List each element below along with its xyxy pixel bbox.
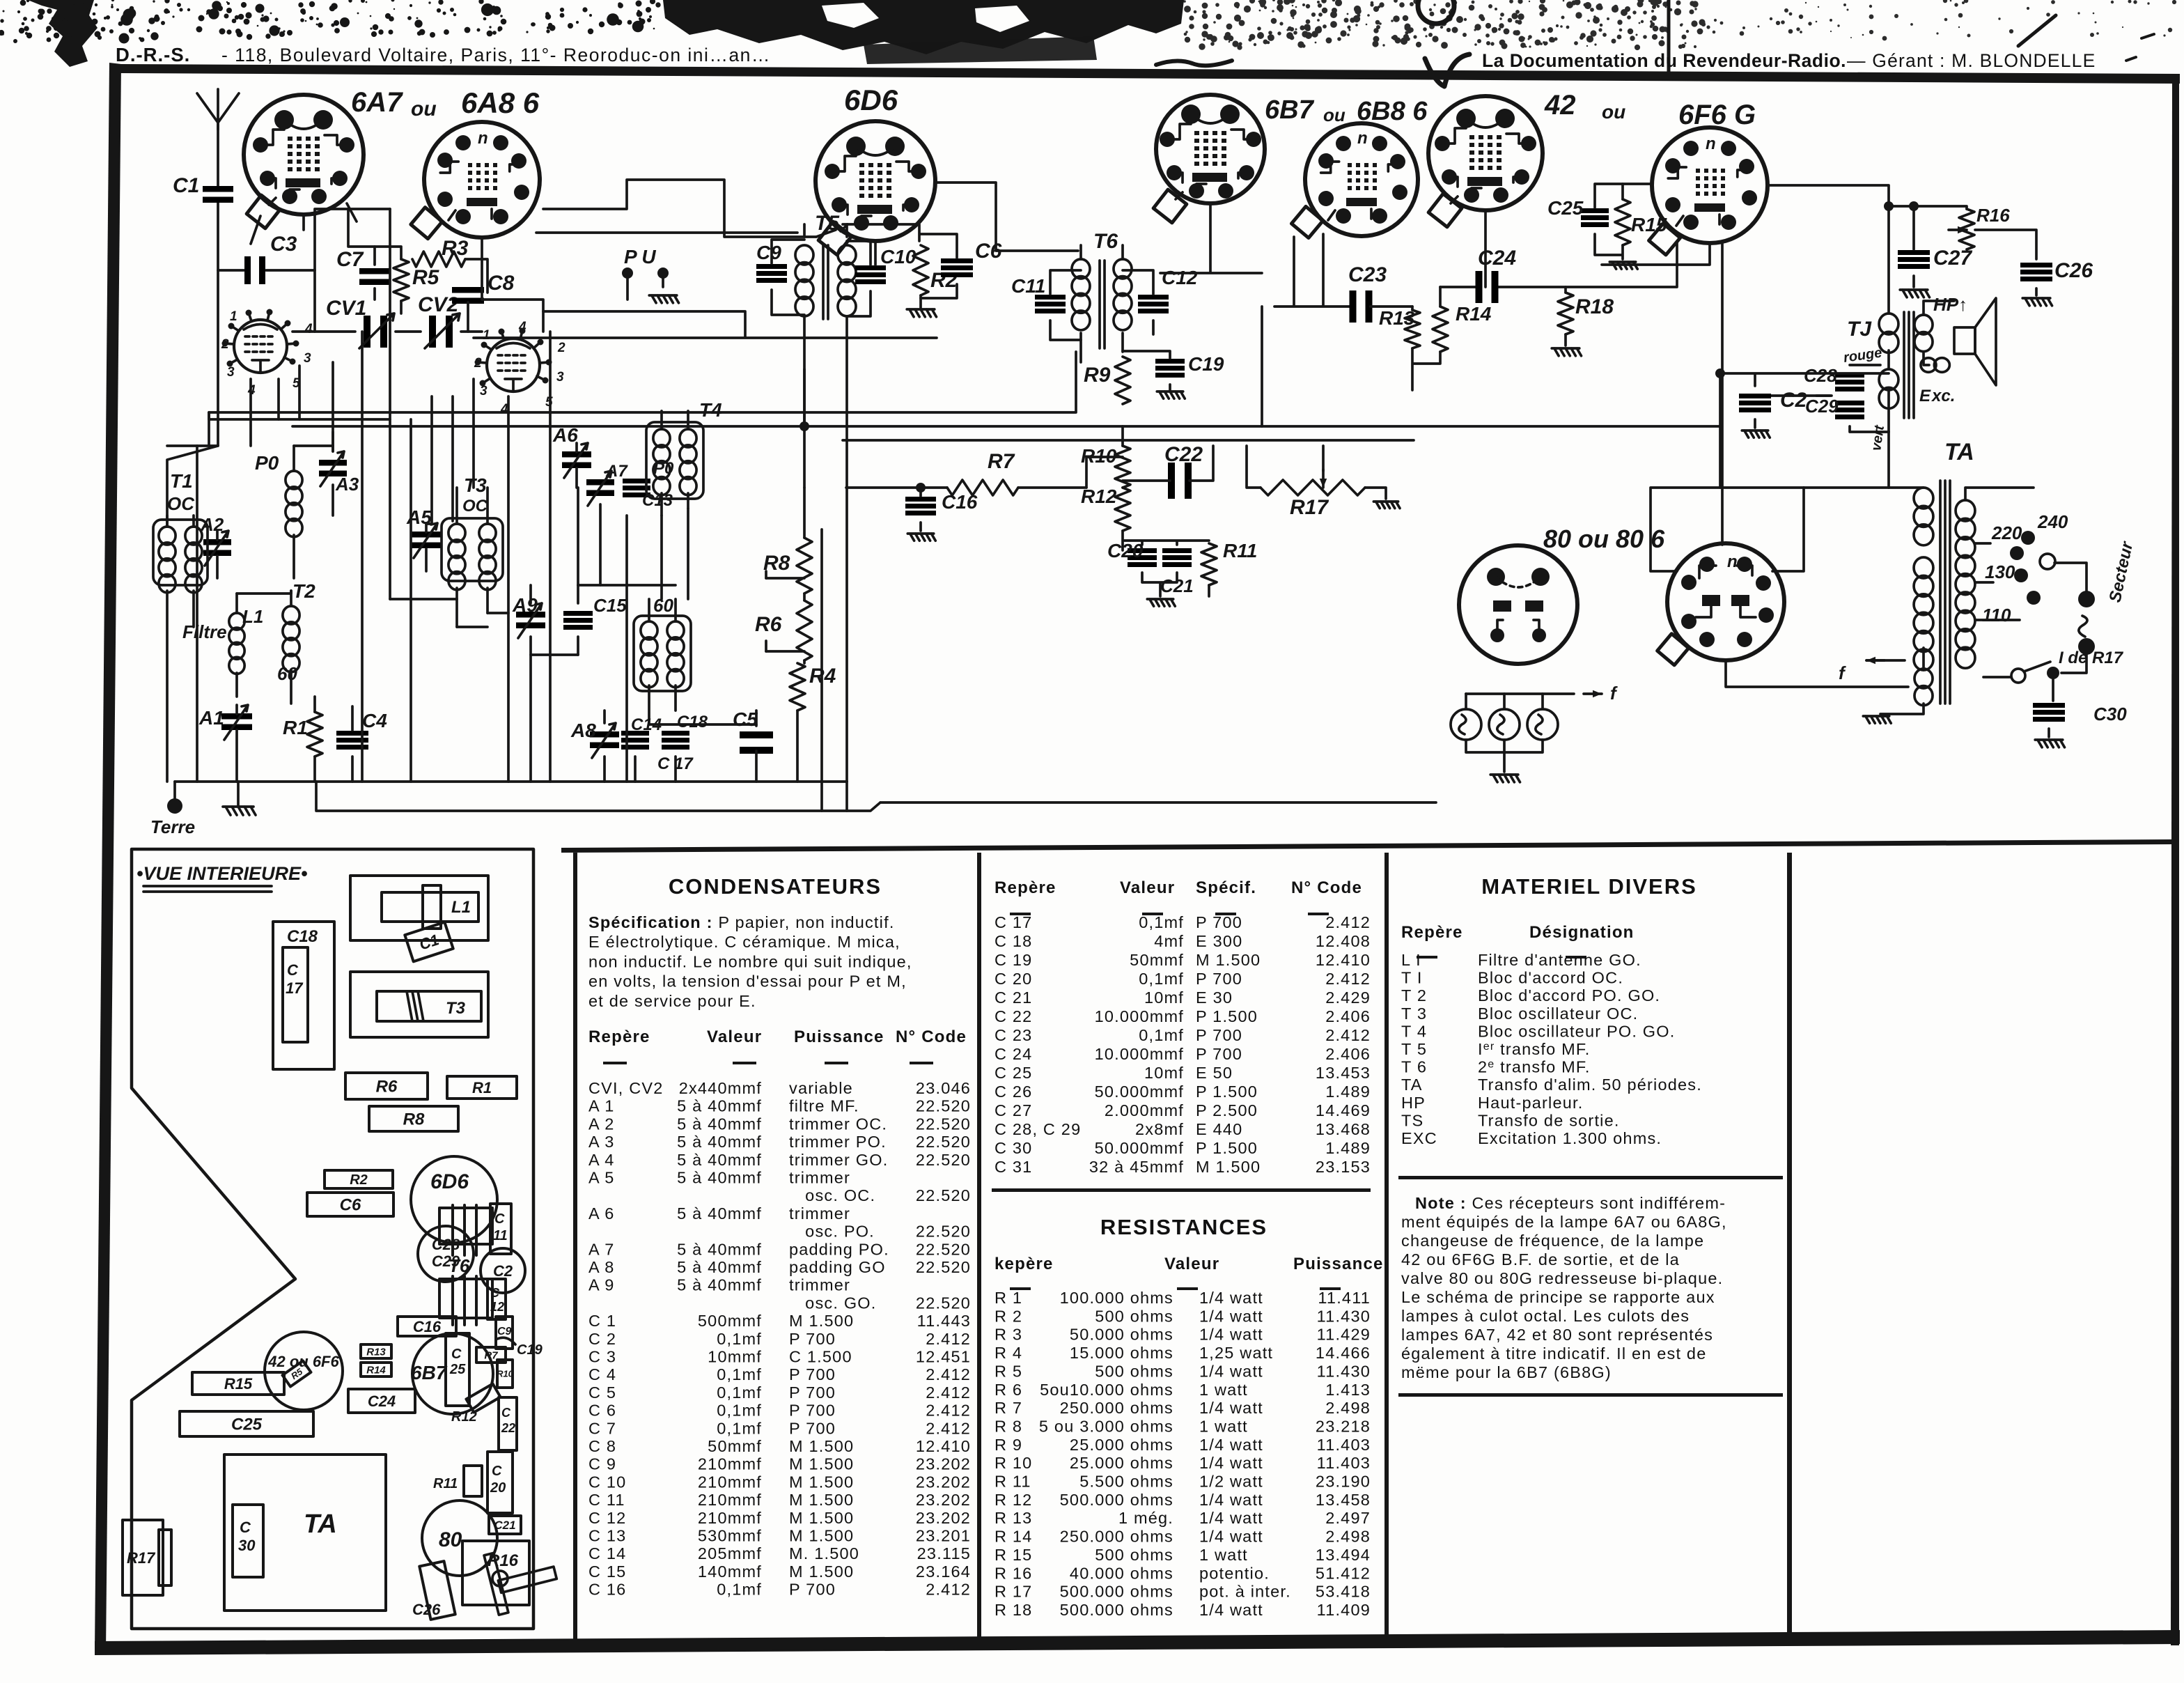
svg-text:R 12: R 12 [994, 1491, 1032, 1509]
svg-text:R 7: R 7 [994, 1399, 1022, 1417]
svg-text:2.497: 2.497 [1325, 1509, 1371, 1527]
svg-text:également à titre indicatif. I: également à titre indicatif. Il en est d… [1401, 1344, 1706, 1363]
scan noise: big central blob [663, 0, 1184, 54]
scan noise: vertical stray line [1667, 0, 1671, 77]
svg-text:C 17: C 17 [994, 913, 1032, 931]
svg-text:R 17: R 17 [994, 1583, 1032, 1601]
svg-text:C5: C5 [733, 708, 758, 730]
svg-text:32 à 45mmf: 32 à 45mmf [1089, 1158, 1184, 1176]
svg-text:padding GO: padding GO [789, 1258, 886, 1276]
svg-text:11.429: 11.429 [1317, 1326, 1371, 1344]
svg-text:C8: C8 [487, 272, 515, 295]
capacitor C11 [1035, 295, 1066, 300]
svg-text:2.412: 2.412 [1325, 970, 1371, 988]
svg-text:M 1.500: M 1.500 [789, 1527, 854, 1545]
svg-text:RESISTANCES: RESISTANCES [1100, 1215, 1267, 1239]
svg-text:15.000 ohms: 15.000 ohms [1070, 1344, 1173, 1362]
wire: long B+ bus [292, 369, 1720, 426]
svg-text:1/4 watt: 1/4 watt [1199, 1289, 1263, 1307]
svg-text:C18: C18 [677, 713, 708, 731]
capacitor C18 schematic [662, 731, 689, 736]
svg-text:T4: T4 [699, 399, 722, 421]
svg-text:23.202: 23.202 [916, 1509, 971, 1527]
svg-text:L1: L1 [451, 898, 471, 917]
svg-text:R 13: R 13 [994, 1509, 1032, 1527]
svg-text:11.443: 11.443 [917, 1312, 971, 1330]
chassis part C2 circle [481, 1248, 525, 1293]
chassis part R9 [496, 1317, 513, 1349]
svg-text:23.218: 23.218 [1316, 1417, 1371, 1435]
rule under C31 [992, 1188, 1371, 1192]
svg-text:R 11: R 11 [994, 1473, 1031, 1491]
table divider right of materiel divers [1787, 853, 1792, 1638]
svg-text:D.-R.-S.: D.-R.-S. [116, 44, 190, 65]
capacitor C30 [2033, 703, 2065, 708]
wire: 42/6F6G output stage link [1602, 243, 1722, 545]
wire: 80G connections [1651, 488, 1908, 687]
svg-text:P 700: P 700 [789, 1330, 836, 1348]
svg-text:80: 80 [439, 1528, 462, 1551]
svg-text:5ou10.000 ohms: 5ou10.000 ohms [1040, 1381, 1173, 1399]
svg-text:6D6: 6D6 [844, 84, 898, 116]
capacitor C5 [740, 731, 773, 738]
ground R17 [1373, 502, 1400, 509]
svg-text:A 4: A 4 [588, 1151, 615, 1169]
capacitor C27 [1898, 250, 1930, 255]
svg-text:13.453: 13.453 [1316, 1064, 1371, 1082]
speaker coil [1921, 358, 1936, 372]
svg-text:T5: T5 [815, 212, 840, 235]
resistor R12 [1115, 488, 1130, 531]
svg-text:R 4: R 4 [994, 1344, 1022, 1362]
ground for PU [649, 295, 678, 303]
wire: left section vertical mesh [197, 362, 333, 782]
transfo T6 core marks [1100, 261, 1105, 348]
wire: T6 to 6B7 link [1160, 203, 1262, 273]
tube symbol U2 heptode oscillator section [487, 339, 540, 391]
svg-text:T6: T6 [448, 1255, 470, 1276]
svg-text:potentio.: potentio. [1199, 1564, 1270, 1582]
svg-text:R10: R10 [497, 1369, 514, 1379]
svg-text:C12: C12 [1162, 267, 1198, 288]
trimmer A3 [319, 460, 347, 466]
svg-text:2: 2 [474, 356, 482, 371]
transfo TA primary top winding [1914, 488, 1933, 509]
wire: C3 junction risers [315, 209, 390, 332]
svg-text:42 ou 6F6G B.F. de sortie, et: 42 ou 6F6G B.F. de sortie, et de la [1401, 1250, 1680, 1269]
svg-text:M 1.500: M 1.500 [1196, 1158, 1261, 1176]
transfo TA core [1940, 481, 1950, 704]
svg-text:1.489: 1.489 [1325, 1083, 1371, 1101]
svg-text:C 19: C 19 [994, 951, 1032, 969]
svg-text:ou: ou [411, 98, 437, 121]
svg-text:TA: TA [1401, 1076, 1423, 1094]
wire: B+ into TS centre [1755, 390, 1889, 432]
scan noise: diagonal pen stroke right [2018, 15, 2056, 46]
wire: 6A7 culot stubs [251, 203, 357, 244]
wire: padder bottoms junction [845, 782, 848, 811]
svg-text:HP: HP [1401, 1094, 1426, 1112]
svg-text:C 3: C 3 [588, 1348, 616, 1366]
svg-text:ment équipés de la lampe 6A7 o: ment équipés de la lampe 6A7 ou 6A8G, [1401, 1213, 1727, 1231]
svg-text:Bloc d'accord PO. GO.: Bloc d'accord PO. GO. [1478, 986, 1660, 1005]
svg-text:23.202: 23.202 [916, 1455, 971, 1473]
svg-text:1: 1 [230, 309, 237, 324]
resistor R2 [913, 245, 928, 295]
svg-text:n: n [1706, 134, 1716, 153]
svg-text:lampes à culot octal. Les culo: lampes à culot octal. Les culots des [1401, 1307, 1690, 1325]
svg-text:T 4: T 4 [1401, 1022, 1427, 1040]
resistor R7 [947, 480, 1018, 495]
svg-text:P 1.500: P 1.500 [1196, 1139, 1258, 1157]
svg-text:1 még.: 1 még. [1118, 1509, 1173, 1527]
svg-text:C2: C2 [1780, 389, 1807, 412]
svg-text:M 1.500: M 1.500 [789, 1455, 854, 1473]
svg-text:TA: TA [304, 1510, 337, 1539]
svg-text:R 5: R 5 [994, 1362, 1022, 1380]
svg-text:12.408: 12.408 [1316, 932, 1371, 950]
svg-text:C26: C26 [2054, 259, 2093, 282]
chassis part T6 IF can [439, 1208, 492, 1244]
svg-text:A 9: A 9 [588, 1276, 615, 1294]
capacitor C3 [244, 256, 251, 284]
svg-text:M 1.500: M 1.500 [789, 1491, 854, 1509]
svg-text:4mf: 4mf [1154, 932, 1184, 950]
svg-text:padding PO.: padding PO. [789, 1240, 889, 1258]
svg-text:R7: R7 [988, 450, 1015, 473]
svg-text:A 3: A 3 [588, 1133, 615, 1151]
svg-text:T I: T I [1401, 969, 1423, 987]
speaker HP [1954, 327, 1975, 354]
trimmer A2 [203, 539, 231, 545]
svg-text:R14: R14 [1456, 303, 1492, 325]
svg-text:C19: C19 [1188, 353, 1224, 375]
svg-text:2.412: 2.412 [926, 1330, 971, 1348]
svg-text:C15: C15 [593, 595, 627, 616]
svg-text:Excitation 1.300 ohms.: Excitation 1.300 ohms. [1478, 1129, 1662, 1147]
svg-text:C 25: C 25 [994, 1064, 1032, 1082]
svg-text:5 à 40mmf: 5 à 40mmf [677, 1258, 762, 1276]
svg-text:22.520: 22.520 [916, 1151, 971, 1169]
trimmer A9 [516, 612, 545, 618]
svg-text:12: 12 [490, 1300, 504, 1314]
svg-text:22.520: 22.520 [916, 1258, 971, 1276]
capacitor C16 [905, 497, 936, 502]
svg-text:6F6 G: 6F6 G [1678, 100, 1756, 130]
variable capacitor CV1 [364, 316, 370, 348]
svg-text:R2: R2 [930, 269, 958, 292]
svg-text:R8: R8 [403, 1110, 425, 1129]
svg-text:C: C [490, 1286, 500, 1300]
svg-text:trimmer PO.: trimmer PO. [789, 1133, 887, 1151]
capacitor C15 [563, 611, 593, 616]
svg-text:22.520: 22.520 [916, 1240, 971, 1258]
svg-text:10mf: 10mf [1144, 1064, 1184, 1082]
svg-text:R14: R14 [366, 1364, 386, 1376]
svg-text:C1: C1 [173, 174, 199, 197]
svg-text:6D6: 6D6 [430, 1170, 469, 1193]
chassis part TA box [224, 1455, 386, 1611]
scan noise: ring mark [1418, 0, 1454, 24]
svg-text:•VUE INTERIEURE•: •VUE INTERIEURE• [136, 863, 307, 884]
svg-text:500 ohms: 500 ohms [1095, 1546, 1173, 1564]
capacitor C9 [756, 264, 787, 269]
svg-text:MATERIEL DIVERS: MATERIEL DIVERS [1481, 874, 1697, 899]
svg-text:C28: C28 [1804, 365, 1837, 386]
svg-text:P 700: P 700 [1196, 1045, 1242, 1063]
transfo T5 secondary coil [838, 245, 856, 265]
svg-text:23.046: 23.046 [916, 1079, 971, 1097]
svg-text:210mmf: 210mmf [698, 1491, 762, 1509]
svg-text:12.410: 12.410 [916, 1437, 971, 1455]
svg-text:60: 60 [277, 663, 297, 684]
svg-text:2.498: 2.498 [1325, 1399, 1371, 1417]
ground C27 [1900, 290, 1929, 297]
svg-text:OC: OC [462, 497, 488, 515]
svg-text:trimmer OC.: trimmer OC. [789, 1115, 887, 1133]
svg-text:6A8 6: 6A8 6 [461, 86, 540, 119]
svg-text:P U: P U [624, 246, 656, 267]
svg-text:2: 2 [557, 341, 565, 355]
svg-text:2e transfo MF.: 2e transfo MF. [1478, 1058, 1591, 1076]
svg-text:2.412: 2.412 [926, 1581, 971, 1599]
svg-text:C 13: C 13 [588, 1527, 626, 1545]
table divider between condensateurs and middle column [977, 853, 981, 1643]
chassis part R2 [325, 1170, 393, 1188]
svg-text:Bloc oscillateur OC.: Bloc oscillateur OC. [1478, 1005, 1638, 1023]
chassis part R17 left [123, 1520, 163, 1595]
chassis part R16 with shaft [462, 1541, 529, 1605]
wire: plate node to R16 [1889, 206, 1967, 209]
wire: T5 to 6D6 grid [843, 224, 919, 241]
svg-text:0,1mf: 0,1mf [717, 1365, 762, 1383]
svg-text:5 à 40mmf: 5 à 40mmf [677, 1097, 762, 1115]
svg-text:C 27: C 27 [994, 1101, 1032, 1119]
svg-text:1/4 watt: 1/4 watt [1199, 1509, 1263, 1527]
chassis part 6D6 tube circle [411, 1156, 497, 1243]
svg-text:A3: A3 [335, 474, 359, 495]
table divider left edge [573, 853, 577, 1643]
wire: output plate to TS [1768, 185, 1889, 206]
resistor R3 [412, 251, 465, 267]
svg-text:500mmf: 500mmf [698, 1312, 762, 1330]
svg-text:R 8: R 8 [994, 1417, 1022, 1435]
svg-text:22.520: 22.520 [916, 1097, 971, 1115]
svg-text:C 22: C 22 [994, 1007, 1032, 1025]
svg-text:1/4 watt: 1/4 watt [1199, 1491, 1263, 1509]
frame: left border bar [95, 63, 121, 1652]
chassis part C26 tilted [419, 1561, 455, 1620]
resistor R17 potentiometer [1261, 480, 1365, 495]
tube 6A7 culot [244, 95, 364, 215]
terre terminal [167, 798, 182, 814]
svg-text:1/4 watt: 1/4 watt [1199, 1326, 1263, 1344]
ground C26 [2022, 298, 2052, 306]
svg-text:R3: R3 [442, 237, 469, 260]
tube symbol U1 heptode 6A7/6A8 stage 1 [234, 320, 287, 373]
svg-text:C 11: C 11 [588, 1491, 625, 1509]
svg-text:R 1: R 1 [994, 1289, 1022, 1307]
svg-text:et de service pour E.: et de service pour E. [588, 992, 756, 1010]
capacitor C23 [1350, 290, 1357, 323]
svg-text:C 21: C 21 [994, 988, 1032, 1007]
wire: coupling to C24 [1440, 243, 1677, 287]
svg-text:220: 220 [1991, 522, 2022, 543]
chassis part C18 with C17 [273, 922, 334, 1069]
svg-text:filtre MF.: filtre MF. [789, 1097, 859, 1115]
svg-text:1/4 watt: 1/4 watt [1199, 1528, 1263, 1546]
svg-text:Puissance: Puissance [1293, 1255, 1384, 1273]
svg-text:C6: C6 [340, 1196, 361, 1215]
svg-text:6B7: 6B7 [411, 1362, 448, 1383]
wire: screen bus second line [843, 439, 1414, 442]
svg-text:Valeur: Valeur [1120, 878, 1175, 897]
svg-text:HP↑: HP↑ [1933, 294, 1967, 315]
svg-text:A7: A7 [605, 462, 628, 481]
svg-text:5.500 ohms: 5.500 ohms [1079, 1473, 1173, 1491]
svg-text:Le schéma de principe se rappo: Le schéma de principe se rapporte aux [1401, 1288, 1715, 1306]
capacitor C28 [1835, 373, 1864, 378]
svg-text:valve 80 ou 80G redresseuse bi: valve 80 ou 80G redresseuse bi-plaque. [1401, 1269, 1723, 1287]
transfo TS core [1904, 312, 1914, 418]
svg-text:E xc.: E xc. [1919, 387, 1955, 405]
svg-text:T 5: T 5 [1401, 1040, 1427, 1058]
svg-text:2.000mmf: 2.000mmf [1105, 1101, 1184, 1119]
svg-text:2.412: 2.412 [1325, 1026, 1371, 1044]
svg-text:T 2: T 2 [1401, 986, 1427, 1005]
svg-text:C 1: C 1 [588, 1312, 616, 1330]
svg-text:11.403: 11.403 [1317, 1436, 1371, 1454]
chassis part R13 R14 small [361, 1344, 391, 1358]
svg-text:osc. OC.: osc. OC. [789, 1186, 875, 1204]
svg-text:C 12: C 12 [588, 1509, 626, 1527]
svg-text:Valeur: Valeur [1164, 1255, 1219, 1273]
chassis part R11 [464, 1466, 482, 1496]
svg-text:C 6: C 6 [588, 1402, 616, 1420]
resistor R18 [1558, 293, 1573, 334]
chassis part C28 C29 circle [418, 1226, 474, 1282]
svg-text:1 watt: 1 watt [1199, 1417, 1248, 1435]
svg-text:R1: R1 [283, 717, 308, 738]
svg-text:20: 20 [490, 1480, 506, 1496]
scan noise: left edge blob [28, 0, 97, 67]
chassis part R1 [447, 1076, 517, 1099]
wire: R10 top node [1086, 426, 1123, 488]
svg-text:C9: C9 [497, 1326, 512, 1337]
svg-text:0,1mf: 0,1mf [1139, 1026, 1184, 1044]
svg-text:250.000 ohms: 250.000 ohms [1060, 1399, 1173, 1417]
svg-text:2: 2 [221, 337, 229, 352]
wire: TA feeds [1720, 426, 1889, 488]
svg-text:530mmf: 530mmf [698, 1527, 762, 1545]
svg-text:23.153: 23.153 [1316, 1158, 1371, 1176]
svg-text:trimmer: trimmer [789, 1276, 850, 1294]
svg-text:11: 11 [493, 1228, 508, 1243]
chassis part R8 [369, 1106, 458, 1131]
wire: 6B7 stage couplings [1262, 234, 1350, 426]
tube 6F6G culot octal [1652, 127, 1768, 243]
svg-text:CONDENSATEURS: CONDENSATEURS [669, 874, 882, 899]
svg-text:non inductif. Le nombre qui su: non inductif. Le nombre qui suit indique… [588, 952, 912, 970]
svg-text:trimmer: trimmer [789, 1204, 850, 1223]
svg-text:C 26: C 26 [994, 1083, 1032, 1101]
chassis part 80 circle [422, 1500, 497, 1576]
svg-text:23.190: 23.190 [1316, 1473, 1371, 1491]
wire: antenna down-lead [217, 123, 219, 270]
svg-text:0,1mf: 0,1mf [1139, 970, 1184, 988]
svg-text:mëme pour la 6B7 (6B8G): mëme pour la 6B7 (6B8G) [1401, 1363, 1612, 1381]
svg-text:P 700: P 700 [789, 1365, 836, 1383]
wire: CV1-CV2 gang line [292, 330, 482, 333]
svg-text:80 ou 80 6: 80 ou 80 6 [1543, 525, 1665, 553]
svg-text:M 1.500: M 1.500 [789, 1437, 854, 1455]
svg-text:Transfo de sortie.: Transfo de sortie. [1478, 1111, 1620, 1129]
svg-text:CVI, CV2: CVI, CV2 [588, 1079, 664, 1097]
ground under R11-C20 [1147, 599, 1175, 606]
svg-text:500 ohms: 500 ohms [1095, 1362, 1173, 1380]
svg-text:TJ: TJ [1847, 318, 1872, 341]
capacitor C29 [1835, 401, 1864, 405]
svg-text:M 1.500: M 1.500 [789, 1312, 854, 1330]
chassis part C16 [398, 1317, 456, 1336]
svg-text:22.520: 22.520 [916, 1223, 971, 1241]
svg-text:2.412: 2.412 [926, 1365, 971, 1383]
svg-text:C18: C18 [287, 927, 318, 946]
chassis part R7 small [476, 1347, 506, 1363]
capacitor C24 [1476, 271, 1483, 303]
ground R18 [1552, 348, 1581, 356]
svg-text:1/4 watt: 1/4 watt [1199, 1399, 1263, 1417]
resistor R4 [790, 663, 805, 711]
svg-text:OC: OC [167, 493, 195, 514]
svg-text:C: C [451, 1347, 462, 1362]
svg-text:3: 3 [304, 351, 311, 366]
wire: T6 secondary bottom [1081, 333, 1123, 362]
svg-text:C 31: C 31 [994, 1158, 1032, 1176]
transfo T6 primary coil [1072, 259, 1090, 279]
svg-text:Ier transfo MF.: Ier transfo MF. [1478, 1040, 1591, 1058]
svg-text:T2: T2 [292, 580, 315, 602]
transfo TS exc winding [1879, 369, 1898, 390]
wire: 6A8G grid riser and top link to 6D6 [543, 180, 816, 237]
svg-text:R 14: R 14 [994, 1528, 1032, 1546]
svg-text:14.469: 14.469 [1316, 1101, 1371, 1119]
bracket bloc T1 [153, 520, 208, 585]
svg-text:1.489: 1.489 [1325, 1139, 1371, 1157]
vue interieure chassis outline [132, 849, 533, 1629]
svg-text:R 3: R 3 [994, 1326, 1022, 1344]
svg-text:0,1mf: 0,1mf [717, 1581, 762, 1599]
svg-text:C 16: C 16 [588, 1581, 626, 1599]
svg-text:5 à 40mmf: 5 à 40mmf [677, 1169, 762, 1187]
svg-text:50mmf: 50mmf [1130, 951, 1184, 969]
svg-text:1 watt: 1 watt [1199, 1546, 1248, 1564]
svg-text:10mmf: 10mmf [708, 1348, 762, 1366]
tube 6B7 culot [1156, 95, 1265, 203]
svg-text:C 20: C 20 [994, 970, 1032, 988]
chassis part C21 [489, 1516, 521, 1534]
svg-text:2.406: 2.406 [1325, 1007, 1371, 1025]
svg-text:P 700: P 700 [1196, 970, 1242, 988]
svg-text:T3: T3 [464, 474, 487, 496]
svg-text:R 18: R 18 [994, 1601, 1032, 1619]
svg-text:E 50: E 50 [1196, 1064, 1233, 1082]
svg-text:0,1mf: 0,1mf [717, 1402, 762, 1420]
svg-text:EXC: EXC [1401, 1129, 1437, 1147]
svg-text:C 24: C 24 [994, 1045, 1032, 1063]
frame: right border bar [2171, 75, 2179, 1645]
ground C30 [2035, 740, 2064, 747]
